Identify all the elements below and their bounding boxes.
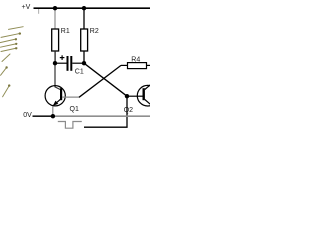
sketch stroke S5 — [1, 47, 17, 51]
wire rail to R1 — [54, 8, 56, 29]
wire Q2 base — [127, 95, 143, 97]
0V rail black segment — [33, 115, 54, 117]
resistor R2 — [81, 28, 99, 51]
junction top rail R1 — [53, 6, 57, 10]
resistor R1 — [52, 28, 70, 51]
transistor Q1 — [45, 86, 79, 113]
svg-text:Q2: Q2 — [124, 107, 133, 114]
wire stub left — [38, 9, 40, 14]
+V supply rail — [34, 7, 151, 9]
wire node B to Q2 base (cross link) — [84, 63, 127, 96]
junction Q2 base node — [125, 94, 129, 98]
wire R2 to node B — [83, 51, 85, 63]
sketch stroke S3 — [0, 38, 17, 42]
svg-text:R2: R2 — [90, 28, 99, 35]
sketch stroke S4 — [0, 43, 17, 47]
sketch stroke S7 — [1, 66, 8, 75]
sketch stroke S6 — [2, 54, 10, 62]
sketch stroke S8 — [3, 84, 11, 96]
trigger wire to Q2 base — [84, 96, 127, 127]
resistor R4 — [121, 57, 150, 69]
wire R1 to node A — [54, 51, 56, 63]
svg-text:0V: 0V — [23, 112, 32, 119]
Q1 emitter wire — [52, 106, 54, 116]
wire rail to R2 — [83, 8, 85, 29]
svg-text:+V: +V — [22, 4, 31, 11]
junction node B — [82, 61, 86, 65]
capacitor C1 — [55, 55, 84, 75]
0V rail gray segment — [53, 115, 150, 117]
transistor Q2 — [124, 84, 158, 114]
svg-text:R4: R4 — [131, 57, 140, 64]
svg-text:R1: R1 — [61, 28, 70, 35]
Q1 base lead — [62, 96, 79, 98]
wire Q1 base to R4 (cross link) — [79, 65, 121, 97]
junction top rail R2 — [82, 6, 86, 10]
junction node A — [53, 61, 57, 65]
sketch stroke S1 — [9, 27, 24, 30]
sketch stroke S2 — [1, 32, 21, 37]
svg-text:C1: C1 — [75, 68, 84, 75]
wire node A to Q1 collector — [55, 63, 61, 90]
junction Q1 emitter on 0V rail — [51, 114, 55, 118]
trigger pulse symbol — [58, 122, 82, 129]
svg-text:Q1: Q1 — [70, 106, 79, 113]
